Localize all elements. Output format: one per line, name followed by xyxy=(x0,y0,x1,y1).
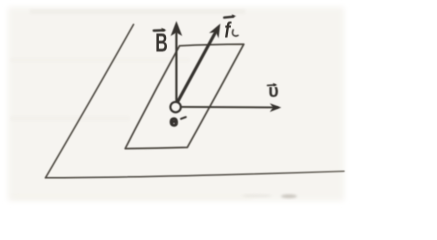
vector fL arrowhead xyxy=(209,24,220,39)
fL subscript iota xyxy=(232,30,238,36)
vector B shaft xyxy=(175,33,177,101)
fL accent arrowhead xyxy=(232,14,236,17)
svg-text:e: e xyxy=(170,114,178,130)
label v vector accent xyxy=(268,84,276,87)
label e superscript minus xyxy=(181,117,186,119)
paper background xyxy=(8,7,344,201)
vector v shaft xyxy=(182,106,278,109)
large plane bottom edge xyxy=(46,171,345,178)
paper streak lower xyxy=(10,116,130,121)
bleed-through smudge dark xyxy=(281,194,297,198)
paper streak top xyxy=(30,9,245,14)
paper lower fringe xyxy=(12,194,252,200)
label fL vector accent xyxy=(224,16,233,19)
electron circle xyxy=(170,102,180,112)
vector v arrowhead xyxy=(270,103,282,112)
paper streak mid xyxy=(10,58,190,62)
bleed-through smudge light xyxy=(242,194,272,197)
vector fL shaft xyxy=(178,31,216,101)
vector B arrowhead xyxy=(171,21,183,36)
large plane left edge xyxy=(46,25,134,178)
svg-text:υ: υ xyxy=(268,81,278,101)
v accent arrowhead xyxy=(273,83,277,86)
B accent arrowhead xyxy=(161,28,166,31)
label B vector accent xyxy=(154,29,164,32)
small parallelogram outline xyxy=(125,44,244,148)
svg-text:B: B xyxy=(155,28,168,57)
